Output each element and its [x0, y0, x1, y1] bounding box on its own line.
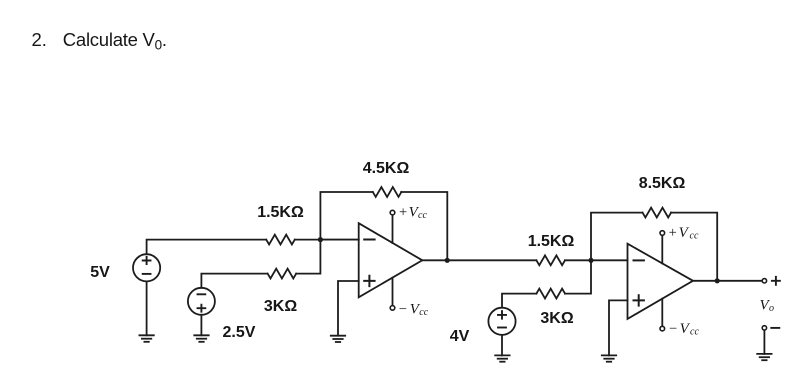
wire — [422, 259, 536, 261]
svg-text:3KΩ: 3KΩ — [540, 310, 573, 327]
wire — [295, 239, 359, 241]
svg-text:cc: cc — [418, 210, 427, 221]
resistor R1 1.5K — [266, 235, 295, 245]
svg-text:+: + — [669, 225, 677, 241]
wire — [565, 260, 591, 293]
svg-text:3KΩ: 3KΩ — [264, 298, 297, 315]
resistor R5 3K — [536, 289, 565, 299]
voltage source V3 4V — [488, 308, 515, 335]
op-amp U1 — [359, 223, 423, 297]
title — [32, 29, 167, 53]
wire — [296, 240, 320, 274]
+Vcc pin U2 — [660, 225, 699, 263]
wire — [320, 239, 358, 241]
svg-text:−: − — [669, 321, 677, 337]
svg-text:1.5KΩ: 1.5KΩ — [257, 204, 304, 221]
svg-text:5V: 5V — [90, 264, 110, 281]
svg-text:+: + — [399, 205, 407, 221]
wire — [565, 259, 628, 261]
ground — [495, 355, 509, 361]
svg-text:V: V — [679, 225, 690, 241]
voltage source V1 5V — [133, 254, 160, 281]
-Vcc pin U1 — [390, 278, 429, 318]
terminal - — [762, 326, 779, 330]
node B — [445, 258, 450, 263]
node C — [588, 258, 593, 263]
svg-text:2.5V: 2.5V — [223, 324, 256, 341]
wire — [320, 192, 372, 240]
wire — [338, 281, 359, 336]
ground — [602, 355, 616, 361]
op-amp U2 — [628, 244, 694, 319]
svg-text:8.5KΩ: 8.5KΩ — [639, 175, 686, 192]
svg-text:−: − — [399, 301, 407, 317]
wire — [147, 240, 267, 255]
svg-text:2.: 2. — [32, 29, 47, 50]
ground — [331, 336, 345, 342]
wire — [501, 335, 503, 355]
node D — [715, 278, 720, 283]
voltage source V2 2.5V — [188, 288, 215, 315]
+Vcc pin U1 — [390, 205, 427, 244]
svg-text:4.5KΩ: 4.5KΩ — [363, 160, 410, 177]
svg-text:cc: cc — [690, 231, 699, 242]
svg-text:1.5KΩ: 1.5KΩ — [528, 233, 575, 250]
node A — [318, 237, 323, 242]
resistor R4 1.5K — [536, 255, 565, 265]
ground — [139, 335, 153, 342]
svg-text:V: V — [680, 321, 691, 337]
resistor R3 4.5K feedback — [373, 187, 402, 197]
svg-text:4V: 4V — [450, 328, 470, 345]
label Vo — [760, 298, 775, 314]
wire — [502, 294, 536, 308]
svg-text:cc: cc — [690, 327, 699, 338]
resistor R6 8.5K feedback — [643, 208, 672, 218]
wire — [591, 213, 643, 261]
wire — [609, 300, 628, 355]
resistor R2 3K — [268, 269, 297, 279]
terminal + — [762, 277, 780, 285]
wire — [671, 213, 717, 281]
wire — [693, 280, 762, 282]
svg-text:o: o — [769, 303, 774, 314]
ground — [194, 335, 208, 342]
wire — [763, 330, 765, 354]
wire — [201, 274, 267, 288]
ground — [757, 354, 771, 360]
-Vcc pin U2 — [660, 299, 699, 338]
svg-text:cc: cc — [419, 307, 428, 318]
svg-text:Calculate V0.: Calculate V0. — [63, 29, 167, 53]
wire — [200, 315, 202, 335]
wire — [146, 281, 148, 335]
wire — [401, 192, 447, 260]
